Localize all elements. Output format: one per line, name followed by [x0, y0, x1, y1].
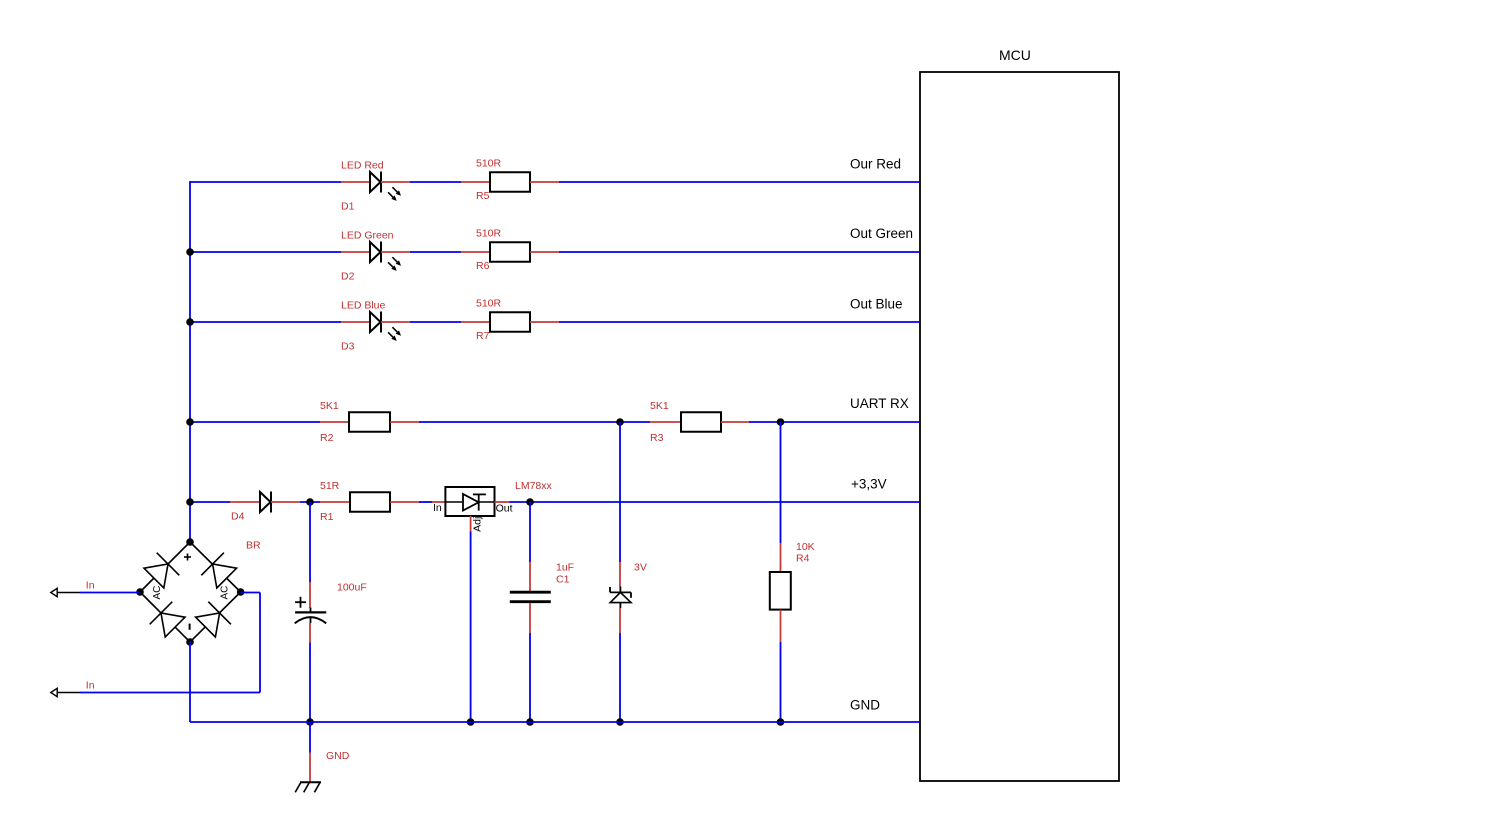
U1 pin name In	[433, 502, 442, 514]
junction C1 at GND rail	[526, 718, 534, 726]
svg-text:Out: Out	[496, 502, 513, 514]
svg-text:10K: 10K	[796, 541, 815, 553]
capacitor C1 1uF	[510, 592, 551, 602]
resistor R7 510R	[490, 312, 530, 332]
LED D2 (LED Green)	[370, 242, 401, 271]
D4 anode pin lead	[230, 501, 260, 503]
net label Our Red	[850, 157, 901, 172]
MCU U2 box	[920, 72, 1119, 781]
svg-text:C1: C1	[556, 574, 570, 586]
net label Out Blue	[850, 297, 903, 312]
svg-text:51R: 51R	[320, 480, 340, 492]
wire bus to D3	[190, 321, 341, 323]
resistor R4 10K	[770, 572, 791, 610]
label GND net	[326, 750, 350, 762]
R6 right pin lead	[530, 251, 559, 253]
resistor R6 510R	[490, 242, 530, 262]
wire D1 to R5	[410, 181, 461, 183]
svg-text:Out Blue: Out Blue	[850, 297, 903, 312]
wire D3 to R7	[410, 321, 461, 323]
wire R2 to node A	[419, 421, 650, 423]
label value 510R (R7)	[476, 297, 502, 309]
svg-text:In: In	[86, 679, 95, 691]
100uF top pin lead	[309, 582, 311, 608]
junction node B (R4 tap)	[777, 418, 785, 426]
D1 cathode pin lead	[381, 181, 410, 183]
zener anode pin lead	[619, 608, 621, 633]
D3 cathode pin lead	[381, 321, 410, 323]
svg-text:D4: D4	[231, 510, 245, 522]
svg-text:LED Red: LED Red	[341, 160, 384, 172]
MCU label	[999, 47, 1031, 63]
label designator C1	[556, 574, 570, 586]
label value 51R (R1)	[320, 480, 340, 492]
U1 pin name Adj	[472, 517, 484, 532]
label In lower	[86, 679, 95, 691]
label value 5K1 (R3)	[650, 400, 669, 412]
svg-text:In: In	[86, 579, 95, 591]
wire R4 to GND rail	[780, 642, 782, 722]
label designator BR	[246, 540, 261, 552]
BR diode top-left	[144, 553, 179, 588]
svg-text:+3,3V: +3,3V	[851, 477, 887, 492]
junction BR bottom node	[186, 638, 194, 646]
svg-text:3V: 3V	[634, 561, 647, 573]
BR pin name AC left	[152, 586, 163, 600]
LED D1 (LED Red)	[370, 172, 401, 201]
wire D2 to R6	[410, 251, 461, 253]
R2 right pin lead	[390, 421, 419, 423]
net label GND	[850, 698, 880, 713]
label designator R6	[476, 260, 490, 272]
wire GND stub	[309, 722, 311, 753]
svg-text:GND: GND	[326, 750, 350, 762]
svg-text:R6: R6	[476, 260, 490, 272]
junction R4 at GND rail	[777, 718, 785, 726]
svg-text:MCU: MCU	[999, 47, 1031, 63]
R6 left pin lead	[461, 251, 490, 253]
R4 bottom pin lead	[780, 610, 782, 642]
junction node A (zener tap)	[616, 418, 624, 426]
R3 right pin lead	[721, 421, 749, 423]
svg-text:510R: 510R	[476, 227, 502, 239]
C1 bottom pin lead	[529, 603, 531, 633]
label designator D4	[231, 510, 245, 522]
D4 cathode pin lead	[271, 501, 300, 503]
label value 5K1 (R2)	[320, 400, 339, 412]
svg-text:510R: 510R	[476, 157, 502, 169]
svg-text:UART RX: UART RX	[850, 396, 909, 411]
svg-text:Our Red: Our Red	[850, 157, 901, 172]
label value 510R (R5)	[476, 157, 502, 169]
R4 top pin lead	[780, 543, 782, 572]
net label UART RX	[850, 396, 909, 411]
wire bus to D1	[190, 181, 341, 183]
resistor R1 51R	[350, 492, 390, 512]
svg-text:5K1: 5K1	[320, 400, 339, 412]
wire C1 to GND rail	[529, 633, 531, 722]
svg-text:D1: D1	[341, 200, 355, 212]
ground symbol GND	[295, 782, 321, 792]
BR pin name AC right	[220, 586, 231, 600]
svg-text:D3: D3	[341, 340, 355, 352]
label designator R2	[320, 432, 334, 444]
svg-text:R2: R2	[320, 432, 334, 444]
label designator D3	[341, 340, 355, 352]
D1 anode pin lead	[341, 181, 370, 183]
U1 Out pin lead	[495, 501, 510, 503]
wire R3 to MCU	[749, 421, 920, 423]
label designator R5	[476, 190, 490, 202]
wire node A to zener	[619, 422, 621, 562]
wire Adj to GND rail	[470, 531, 472, 722]
junction bus +3,3V row	[186, 498, 194, 506]
svg-text:LED Green: LED Green	[341, 230, 394, 242]
wire BR right node down	[241, 593, 260, 693]
zener cathode pin lead	[619, 562, 621, 587]
BR diode bottom-right	[196, 602, 231, 637]
svg-text:D2: D2	[341, 270, 355, 282]
wire zener to GND rail	[619, 633, 621, 722]
wire GND rail	[190, 721, 920, 723]
junction 100uF at GND rail	[306, 718, 314, 726]
BR diode bottom-left	[150, 602, 185, 637]
svg-text:100uF: 100uF	[337, 582, 367, 594]
label value 510R (R6)	[476, 227, 502, 239]
net label Out Green	[850, 226, 913, 241]
wire R5 to MCU	[559, 181, 920, 183]
svg-text:5K1: 5K1	[650, 400, 669, 412]
diode D4	[260, 492, 271, 513]
label designator D1	[341, 200, 355, 212]
R7 left pin lead	[461, 321, 490, 323]
label designator R7	[476, 330, 490, 342]
U1 In pin lead	[432, 501, 445, 503]
resistor R3 5K1	[681, 412, 721, 432]
junction BR left node	[136, 588, 144, 596]
LED D3 (LED Blue)	[370, 312, 401, 341]
svg-text:AC: AC	[152, 586, 163, 600]
GND pin lead	[309, 753, 311, 783]
R1 right pin lead	[390, 501, 419, 503]
wire main bus vertical	[189, 181, 191, 542]
port In lower arrow	[51, 688, 80, 696]
C1 top pin lead	[529, 562, 531, 591]
svg-text:510R: 510R	[476, 297, 502, 309]
svg-text:LED Blue: LED Blue	[341, 300, 386, 312]
BR minus terminal mark	[189, 624, 191, 630]
BR plus terminal mark	[184, 554, 191, 561]
svg-text:GND: GND	[850, 698, 880, 713]
junction bus row3	[186, 318, 194, 326]
svg-text:Adj: Adj	[472, 517, 484, 532]
label value 100uF	[337, 582, 367, 594]
svg-text:LM78xx: LM78xx	[515, 480, 553, 492]
R1 left pin lead	[320, 501, 350, 503]
voltage regulator U1 LM78xx	[445, 487, 494, 516]
U1 pin name Out	[496, 502, 513, 514]
100uF bottom pin lead	[309, 623, 311, 643]
label designator R4	[796, 553, 810, 565]
label designator R3	[650, 432, 664, 444]
label In upper	[86, 579, 95, 591]
junction BR right node	[237, 588, 245, 596]
R7 right pin lead	[530, 321, 559, 323]
polarized capacitor 100uF	[295, 597, 327, 624]
svg-text:BR: BR	[246, 540, 261, 552]
wire bus to D2	[190, 251, 341, 253]
label value LED Red	[341, 160, 384, 172]
svg-text:Out Green: Out Green	[850, 226, 913, 241]
wire U1 Out to +3,3V rail	[509, 501, 920, 503]
wire R7 to MCU	[559, 321, 920, 323]
wire BR bottom to GND rail	[189, 642, 191, 722]
resistor R5 510R	[490, 172, 530, 192]
svg-text:R7: R7	[476, 330, 490, 342]
wire node B to R4	[780, 422, 782, 543]
label designator R1	[320, 511, 334, 523]
R5 left pin lead	[461, 181, 490, 183]
svg-text:R5: R5	[476, 190, 490, 202]
net label +3,3V	[851, 477, 887, 492]
junction zener at GND rail	[616, 718, 624, 726]
label value LED Green	[341, 230, 394, 242]
label value 10K	[796, 541, 815, 553]
junction bus row2	[186, 248, 194, 256]
wire In upper to BR	[80, 592, 140, 594]
junction node D (C1 tap)	[526, 498, 534, 506]
svg-text:R1: R1	[320, 511, 334, 523]
svg-text:R3: R3	[650, 432, 664, 444]
R2 left pin lead	[320, 421, 349, 423]
wire R1 to U1 In	[419, 501, 432, 503]
svg-text:R4: R4	[796, 553, 810, 565]
label value 1uF	[556, 561, 574, 573]
U1 Adj pin lead	[470, 516, 472, 531]
junction node C (100uF tap)	[306, 498, 314, 506]
D3 anode pin lead	[341, 321, 370, 323]
label value LED Blue	[341, 300, 386, 312]
wire 100uF to GND rail	[309, 643, 311, 722]
port In upper arrow	[51, 588, 80, 596]
D2 anode pin lead	[341, 251, 370, 253]
wire In lower	[80, 692, 260, 694]
wire bus to D4	[190, 501, 230, 503]
zener diode 3V	[610, 587, 631, 609]
wire bus to R2	[190, 421, 320, 423]
wire node C to 100uF	[309, 502, 311, 582]
junction BR top node	[186, 538, 194, 546]
wire D4 to node C	[300, 501, 320, 503]
svg-text:1uF: 1uF	[556, 561, 574, 573]
junction bus UART row	[186, 418, 194, 426]
resistor R2 5K1	[349, 412, 390, 432]
D2 cathode pin lead	[381, 251, 410, 253]
svg-text:AC: AC	[220, 586, 231, 600]
label value LM78xx	[515, 480, 553, 492]
BR diode top-right	[201, 553, 236, 588]
R5 right pin lead	[530, 181, 559, 183]
wire node D to C1	[529, 502, 531, 562]
label designator D2	[341, 270, 355, 282]
junction Adj at GND rail	[467, 718, 475, 726]
wire R6 to MCU	[559, 251, 920, 253]
label value 3V	[634, 561, 647, 573]
R3 left pin lead	[650, 421, 681, 423]
bridge rectifier BR frame	[140, 542, 241, 642]
svg-text:In: In	[433, 502, 442, 514]
